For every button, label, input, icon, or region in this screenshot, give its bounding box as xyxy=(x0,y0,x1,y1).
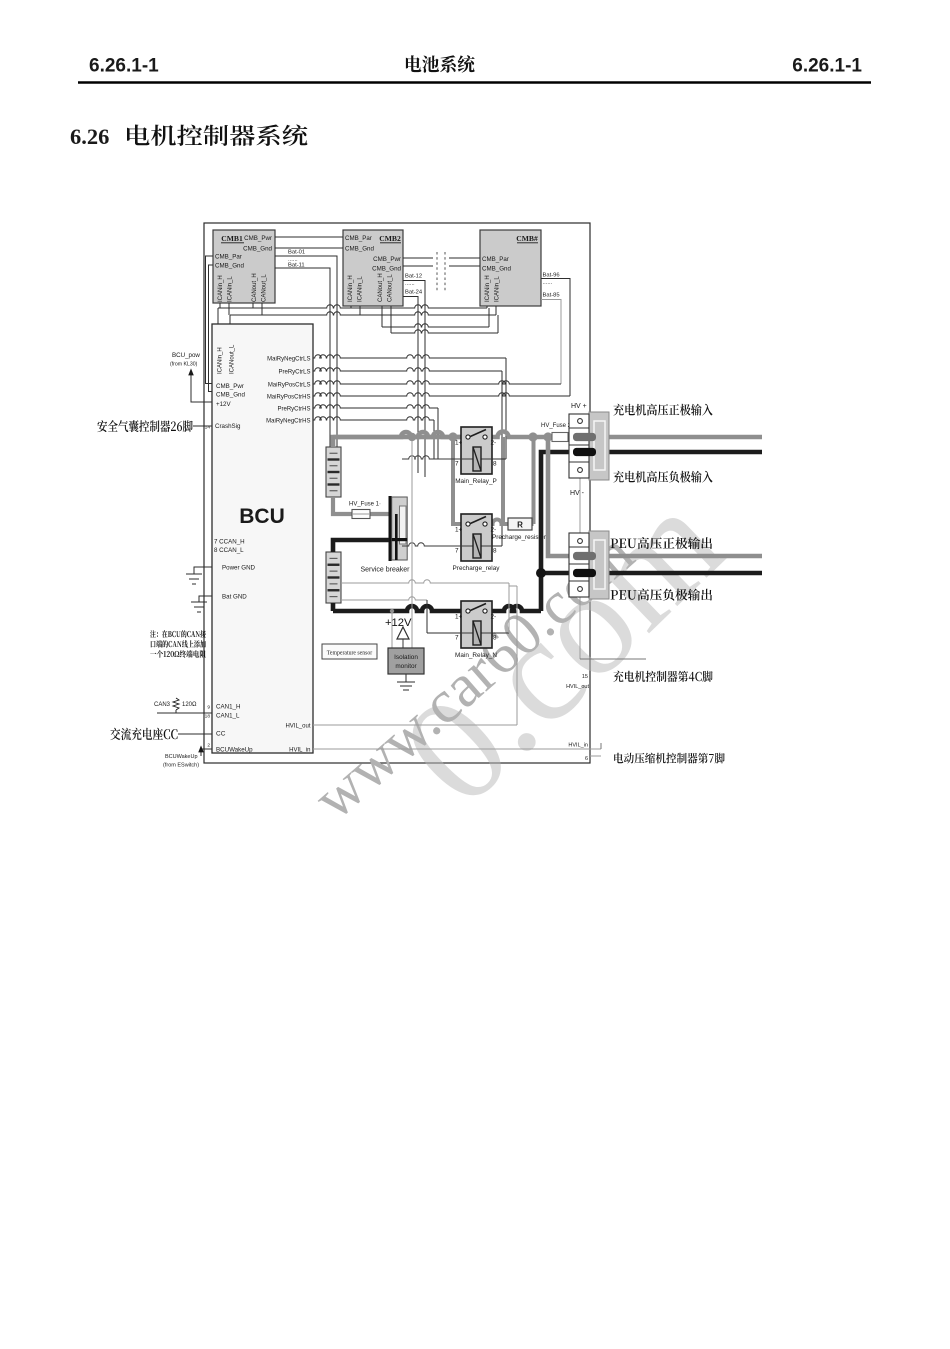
svg-text:8: 8 xyxy=(493,461,497,468)
control wire MaiRyPosCtrHS joins Bat-96 drop xyxy=(313,393,570,396)
svg-text:CrashSig: CrashSig xyxy=(215,423,241,430)
svg-text:Power GND: Power GND xyxy=(222,565,256,572)
svg-text:CMB_Gnd: CMB_Gnd xyxy=(345,246,374,253)
header rule xyxy=(78,81,871,83)
HV+ gray bus right of Main_Relay_P xyxy=(488,432,763,438)
svg-text:CMB_Par: CMB_Par xyxy=(215,254,242,261)
svg-text:Bat-96: Bat-96 xyxy=(543,273,560,279)
svg-text:CMB_Par: CMB_Par xyxy=(345,235,372,242)
+12V supply tap xyxy=(385,609,412,648)
section title 6.26 电机控制器系统 xyxy=(70,124,307,149)
HV- black riser and charger input run xyxy=(541,452,762,611)
svg-text:1+: 1+ xyxy=(455,527,463,534)
svg-text:MaiRyNegCtrHS: MaiRyNegCtrHS xyxy=(266,419,310,425)
precharge gray feed from bus to Precharge_relay xyxy=(453,437,466,524)
svg-text:CAN3: CAN3 xyxy=(154,702,171,708)
battery stack 2 xyxy=(326,552,341,603)
svg-text:7: 7 xyxy=(455,548,459,555)
wire precharge pin7 xyxy=(402,543,461,546)
relay Main_Relay_N xyxy=(455,601,497,659)
CMB module CMB2 xyxy=(343,230,403,306)
svg-text:CMB1: CMB1 xyxy=(221,234,243,243)
header page number left xyxy=(89,56,159,77)
svg-text:Bat-85: Bat-85 xyxy=(543,293,560,299)
svg-text:monitor: monitor xyxy=(395,663,417,670)
svg-text:7: 7 xyxy=(455,635,459,642)
CAN bus row D xyxy=(391,330,498,333)
svg-text:Service breaker: Service breaker xyxy=(360,567,410,574)
svg-text:8: 8 xyxy=(493,548,497,555)
labels HVIL_in / 6 xyxy=(568,743,588,763)
svg-text:ICANin_H: ICANin_H xyxy=(218,275,224,302)
wire CMB1 CMB_Gnd to CMB2 xyxy=(275,247,343,249)
schematic outer frame xyxy=(204,223,590,763)
svg-text:HV -: HV - xyxy=(570,490,585,497)
svg-text:6.26.1-1: 6.26.1-1 xyxy=(792,56,862,77)
label 充电机控制器第4C脚 xyxy=(613,671,712,683)
wire Bat-01 from CMB1 down to battery stack 1 xyxy=(275,256,337,447)
label 充电机高压正极输入 xyxy=(613,404,712,416)
svg-text:7 CCAN_H: 7 CCAN_H xyxy=(214,539,245,546)
relay Precharge_relay xyxy=(453,514,501,572)
label Bat-24 xyxy=(405,290,423,296)
CMB module CMB1 xyxy=(213,230,275,303)
svg-text:7: 7 xyxy=(455,461,459,468)
wire CMB2 CMB_Gnd segments to CMB# xyxy=(403,265,480,267)
isolation monitor xyxy=(388,648,424,674)
CAN stubs CMB# xyxy=(487,306,498,333)
charger HV input connector xyxy=(569,412,609,480)
svg-text:8: 8 xyxy=(493,635,497,642)
wire CMB1 CMB_Pwr to CMB2 xyxy=(275,236,343,238)
svg-text:ICANin_L: ICANin_L xyxy=(495,276,501,302)
label Bat-12 xyxy=(405,274,422,288)
HVIL loop through connectors xyxy=(580,473,646,659)
R right side up to bus xyxy=(532,437,534,524)
svg-text:HVIL_out: HVIL_out xyxy=(285,724,310,730)
watermark large 60.com xyxy=(372,459,754,836)
PEU HV output connector xyxy=(569,531,609,599)
control wire PreRyCtrLS xyxy=(313,368,502,546)
labels 15 / HVIL_out at connector xyxy=(566,674,589,690)
CAN stubs CMB2 xyxy=(351,306,391,333)
control wire MaiRyNegCtrHS xyxy=(313,417,434,459)
svg-text:(from KL30): (from KL30) xyxy=(170,362,198,368)
precharge relay output to resistor R xyxy=(488,520,509,525)
relay Main_Relay_P xyxy=(455,427,497,485)
svg-text:6.26: 6.26 xyxy=(70,124,109,149)
svg-text:Precharge_relay: Precharge_relay xyxy=(453,565,501,572)
svg-text:0.com: 0.com xyxy=(372,459,754,836)
header page number right xyxy=(792,56,862,77)
HV- black bus Main_Relay_N to riser xyxy=(488,606,542,611)
svg-text:2-: 2- xyxy=(491,440,497,447)
label Bat-11 xyxy=(288,263,305,269)
HV fuse 1 on battery output xyxy=(333,497,389,519)
svg-text:HVIL_in: HVIL_in xyxy=(289,748,310,754)
gray riser bus to R left xyxy=(501,437,505,524)
wire Bat-24 from CMB2 down to battery stack 2 xyxy=(403,297,418,474)
svg-text:CMB_Pwr: CMB_Pwr xyxy=(373,256,401,263)
svg-text:CANout_L: CANout_L xyxy=(262,274,268,302)
svg-text:CMB2: CMB2 xyxy=(379,234,401,243)
CAN bus row A xyxy=(218,305,487,308)
control wire MaiRyPosCtrLS joins Bat-85 drop xyxy=(313,381,561,384)
svg-text:6.26.1-1: 6.26.1-1 xyxy=(89,56,159,77)
svg-text:CAN1_H: CAN1_H xyxy=(216,704,240,711)
wire Bat-11 from CMB1 down to battery stack 1 xyxy=(275,268,330,447)
service breaker xyxy=(360,496,410,574)
svg-text:MaiRyPosCtrLS: MaiRyPosCtrLS xyxy=(268,383,311,389)
battery stack 1 xyxy=(326,447,341,497)
control wire MaiRyNegCtrLS xyxy=(313,355,506,459)
wire Bat-85 from CMB# down joining control row xyxy=(541,300,561,385)
svg-text:PreRyCtrLS: PreRyCtrLS xyxy=(278,370,310,376)
note: add 120 ohm terminating resistor on BCU CAN port xyxy=(150,630,206,658)
svg-text:6: 6 xyxy=(585,756,588,762)
HV fuse 2 before charger connector xyxy=(541,423,572,442)
CAN bus row C xyxy=(382,324,489,327)
ground symbol Bat GND xyxy=(191,596,212,612)
CAN stubs CMB1 xyxy=(220,303,262,315)
PEU positive gray branch xyxy=(548,437,762,556)
svg-text:1+: 1+ xyxy=(455,614,463,621)
wire relay P pin7 xyxy=(402,456,461,459)
svg-text:......: ...... xyxy=(405,281,415,287)
svg-text:CMB_Pwr: CMB_Pwr xyxy=(244,235,272,242)
HVIL_in wire to BCU xyxy=(313,743,601,756)
svg-text:2-: 2- xyxy=(491,527,497,534)
svg-text:BCU: BCU xyxy=(239,505,285,528)
svg-text:......: ...... xyxy=(543,280,553,286)
svg-text:CMB_Gnd: CMB_Gnd xyxy=(372,266,401,273)
HV+ gray bus from battery1 xyxy=(333,432,466,447)
svg-text:ICANin_L: ICANin_L xyxy=(358,276,364,302)
svg-text:+12V: +12V xyxy=(385,617,412,629)
svg-text:ICANin_H: ICANin_H xyxy=(348,275,354,302)
svg-text:ICANin_H: ICANin_H xyxy=(485,275,491,302)
wire relay N pin7 xyxy=(427,600,461,633)
svg-text:HVIL_in: HVIL_in xyxy=(568,743,588,749)
CMB module CMB# (last in chain) xyxy=(480,230,541,306)
wire CMB2 CMB_Pwr segments to CMB# xyxy=(403,257,480,259)
wire relay N pin8 xyxy=(492,583,517,633)
BCU_pow supply from KL30 xyxy=(170,352,212,402)
svg-text:2-: 2- xyxy=(491,614,497,621)
svg-text:BCUWakeUp: BCUWakeUp xyxy=(216,747,253,754)
svg-text:HVIL_out: HVIL_out xyxy=(566,684,589,690)
svg-text:CMB_Gnd: CMB_Gnd xyxy=(243,246,272,253)
HVIL_out wire from BCU xyxy=(313,586,517,725)
label 充电机高压负极输入 xyxy=(613,471,712,483)
svg-text:HV +: HV + xyxy=(571,403,587,410)
svg-text:CANout_H: CANout_H xyxy=(252,273,258,302)
svg-text:CMB_Gnd: CMB_Gnd xyxy=(215,263,244,270)
wire CMB1 CMB_Par to BCU CMB_Pwr xyxy=(206,256,214,384)
svg-text:Precharge_resister: Precharge_resister xyxy=(492,534,547,541)
svg-text:CANout_L: CANout_L xyxy=(388,274,394,302)
watermark www.car60.com xyxy=(301,520,646,832)
PEU negative output run xyxy=(536,568,762,578)
continuation dashed lines between CMB2 and CMB# xyxy=(437,252,445,292)
CAN bus row B xyxy=(230,312,496,315)
svg-text:15: 15 xyxy=(582,674,588,680)
label Bat-85 xyxy=(543,293,560,299)
svg-text:HV_Fuse 1·: HV_Fuse 1· xyxy=(349,502,381,508)
svg-text:Isolation: Isolation xyxy=(394,654,418,661)
svg-text:Bat GND: Bat GND xyxy=(222,594,247,601)
battery stack 2 sense rows xyxy=(341,580,509,600)
label 交流充电座CC (AC charging socket CC) xyxy=(110,728,212,740)
header chapter title 电池系统 xyxy=(406,55,475,72)
svg-text:Main_Relay_P: Main_Relay_P xyxy=(455,478,497,485)
label Bat-01 xyxy=(288,250,305,264)
CAN3 120ohm resistor xyxy=(154,698,212,713)
svg-text:ICANin_L: ICANin_L xyxy=(228,276,234,302)
svg-text:1+: 1+ xyxy=(455,440,463,447)
wire precharge pin8 xyxy=(492,545,502,547)
svg-text:Bat-01: Bat-01 xyxy=(288,250,305,256)
svg-text:Bat-24: Bat-24 xyxy=(405,290,423,296)
label 电动压缩机控制器第7脚 xyxy=(614,753,725,764)
svg-text:ICANin_H: ICANin_H xyxy=(218,347,224,374)
control wire PreRyCtrHS xyxy=(313,405,438,459)
wire Bat-12 from CMB2 down to battery stack 2 xyxy=(403,281,425,478)
ground symbol isolation monitor xyxy=(397,674,415,690)
svg-text:R: R xyxy=(517,521,523,530)
label HV - xyxy=(570,490,585,497)
svg-text:CANout_H: CANout_H xyxy=(378,273,384,302)
label Bat-96 xyxy=(543,273,560,287)
svg-text:PreRyCtrHS: PreRyCtrHS xyxy=(277,407,310,413)
svg-text:CAN1_L: CAN1_L xyxy=(216,713,240,720)
CAN stubs BCU top xyxy=(218,308,230,324)
svg-text:120Ω: 120Ω xyxy=(182,702,197,708)
svg-text:14: 14 xyxy=(205,425,211,431)
svg-text:(from ESwitch): (from ESwitch) xyxy=(163,763,199,769)
junction dots on HV+ bus xyxy=(448,432,552,441)
label 安全气囊控制器26脚 (airbag ECU pin 26) xyxy=(97,420,212,432)
wire CMB1 CMB_Gnd to BCU CMB_Gnd xyxy=(209,265,214,392)
svg-text:+12V: +12V xyxy=(216,401,231,408)
isolation monitor HV+ sense line xyxy=(408,433,416,648)
BCU electronic control unit block xyxy=(205,324,313,754)
wire Bat-96 from CMB# down joining control row xyxy=(541,279,570,397)
svg-text:8 CCAN_L: 8 CCAN_L xyxy=(214,547,244,554)
svg-text:BCU_pow: BCU_pow xyxy=(172,352,200,359)
svg-text:MaiRyPosCtrHS: MaiRyPosCtrHS xyxy=(267,395,311,401)
svg-text:2: 2 xyxy=(207,743,210,749)
svg-text:Main_Relay_N: Main_Relay_N xyxy=(455,652,497,659)
svg-text:CMB_Par: CMB_Par xyxy=(482,256,509,263)
svg-text:CMB#: CMB# xyxy=(516,234,538,243)
BCUWakeUp from ESwitch xyxy=(163,747,212,769)
HV- black bus battery2 to Main_Relay_N xyxy=(333,603,466,611)
svg-text:18: 18 xyxy=(205,714,211,720)
label HV + xyxy=(571,403,587,410)
svg-text:Bat-12: Bat-12 xyxy=(405,274,422,280)
svg-text:MaiRyNegCtrLS: MaiRyNegCtrLS xyxy=(267,357,310,363)
label PEU高压正极输出 xyxy=(611,537,713,549)
svg-text:CMB_Pwr: CMB_Pwr xyxy=(216,383,244,390)
wire relay P pin8 xyxy=(492,458,506,460)
label PEU高压负极输出 xyxy=(611,589,713,601)
svg-text:CMB_Gnd: CMB_Gnd xyxy=(482,266,511,273)
svg-text:Temperature sensor: Temperature sensor xyxy=(327,651,373,657)
svg-text:CMB_Gnd: CMB_Gnd xyxy=(216,392,245,399)
svg-text:HV_Fuse 2: HV_Fuse 2 xyxy=(541,423,572,429)
HV- black wire battery2 to service breaker xyxy=(333,540,389,552)
svg-text:9: 9 xyxy=(207,705,210,711)
temperature sensor box xyxy=(322,644,377,659)
svg-text:ICANout_L: ICANout_L xyxy=(230,344,236,374)
label Precharge_resister xyxy=(492,534,547,541)
ground symbol Power GND xyxy=(186,567,212,584)
precharge resistor R xyxy=(508,518,532,530)
svg-text:BCUWakeUp: BCUWakeUp xyxy=(165,754,198,760)
svg-text:CC: CC xyxy=(216,731,226,738)
